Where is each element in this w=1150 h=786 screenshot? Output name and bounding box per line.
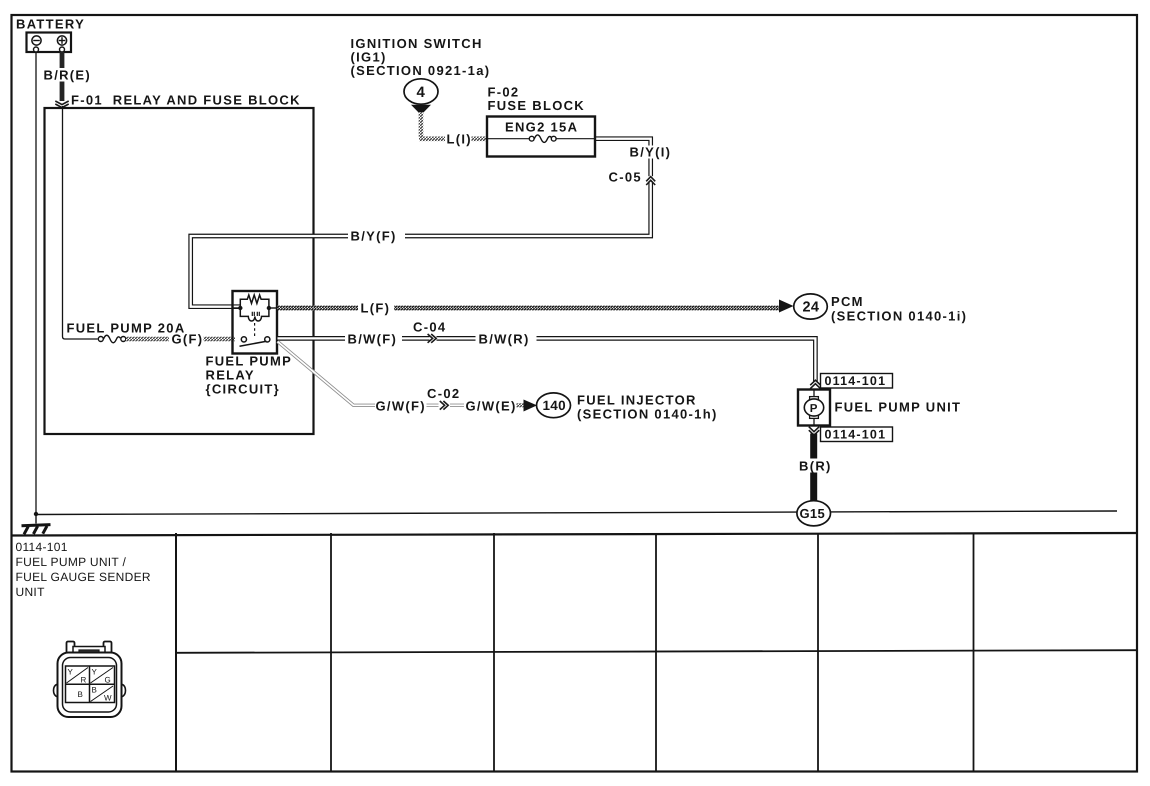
- label B/W(R): [476, 332, 537, 346]
- svg-text:FUEL PUMP: FUEL PUMP: [206, 354, 293, 369]
- wire B(R) thick ground wire: [810, 434, 817, 503]
- wire G/W(F) thin double diagonal from relay: [278, 342, 376, 406]
- svg-text:G: G: [105, 676, 112, 685]
- bottom table column divider 4: [655, 533, 657, 771]
- fuse ENG2 15A symbol: [487, 135, 595, 143]
- wire L(F) hatched to PCM: [278, 306, 359, 311]
- ground symbol: [22, 514, 51, 534]
- wire L(I) hatched: [419, 112, 424, 137]
- battery positive post: [60, 47, 65, 52]
- svg-text:Y: Y: [68, 668, 74, 677]
- svg-text:FUEL PUMP UNIT /: FUEL PUMP UNIT /: [16, 555, 127, 569]
- fuel pump unit box: [798, 390, 830, 426]
- svg-text:(SECTION 0140-1h): (SECTION 0140-1h): [577, 407, 718, 422]
- svg-text:RELAY: RELAY: [206, 368, 255, 383]
- battery body: [27, 33, 72, 53]
- svg-text:140: 140: [543, 398, 566, 413]
- svg-text:FUSE BLOCK: FUSE BLOCK: [488, 98, 586, 113]
- svg-text:24: 24: [803, 300, 820, 316]
- arrow from ignition switch: [411, 105, 431, 115]
- relay dashed actuator line: [254, 323, 256, 336]
- svg-text:W: W: [104, 694, 112, 703]
- bottom table column divider 2: [330, 533, 332, 771]
- svg-text:PCM: PCM: [831, 294, 864, 309]
- connector body inner: [63, 658, 117, 713]
- svg-text:B/Y(I): B/Y(I): [630, 145, 672, 160]
- ground point G15: [797, 501, 831, 526]
- svg-text:(SECTION 0140-1i): (SECTION 0140-1i): [831, 309, 967, 324]
- pump motor internals: [813, 390, 815, 399]
- svg-text:0114-101: 0114-101: [16, 540, 68, 554]
- connector C-02 chevrons: [440, 401, 448, 410]
- battery negative terminal: [32, 36, 41, 45]
- bottom table middle horizontal divider: [176, 650, 1137, 653]
- svg-text:Y: Y: [92, 668, 98, 677]
- connector chevrons at F-01 entry: [55, 101, 68, 108]
- relay coil bottom branch: [240, 308, 269, 321]
- wire G/W segment to C-02: [427, 404, 439, 407]
- svg-text:R: R: [81, 676, 87, 685]
- connector 0114-101 drawing: [54, 642, 126, 718]
- wire G/W(E) hatched stub to arrow: [517, 403, 526, 407]
- svg-text:C-02: C-02: [427, 386, 460, 401]
- label B/W(F): [345, 332, 402, 346]
- wire inside F-01 from B/R entry down to fuse: [63, 106, 98, 339]
- svg-text:B: B: [92, 686, 98, 695]
- svg-text:G15: G15: [800, 506, 825, 521]
- bottom table column divider 1: [175, 533, 177, 771]
- svg-text:L(I): L(I): [447, 132, 472, 147]
- connector circle 24: [794, 294, 828, 319]
- label B(R): [797, 459, 836, 473]
- PCM arrow: [779, 300, 794, 313]
- battery positive terminal: [57, 36, 66, 45]
- battery negative post: [34, 47, 39, 52]
- svg-text:4: 4: [417, 84, 426, 101]
- bottom table top edge: [11, 533, 1137, 536]
- connector body outer: [58, 653, 122, 718]
- label B/Y(F): [348, 230, 405, 244]
- junction dot at ground rail: [34, 512, 38, 516]
- label B/Y(I): [628, 146, 675, 159]
- relay coil hairpin turns: [252, 312, 259, 316]
- bottom table column divider 5: [817, 533, 819, 771]
- svg-text:B/R(E): B/R(E): [44, 68, 92, 83]
- wire G(F) hatched segment 1: [126, 337, 169, 341]
- svg-text:B/W(F): B/W(F): [348, 332, 398, 347]
- fuel pump relay box: [233, 291, 278, 354]
- 0114-101 tag upper: [821, 374, 893, 389]
- svg-text:L(F): L(F): [361, 301, 391, 316]
- wire B/R(E) thick battery feed: [60, 52, 65, 101]
- svg-text:B/W(R): B/W(R): [479, 332, 530, 347]
- F-02 fuse block outline: [487, 117, 595, 157]
- svg-text:FUEL INJECTOR: FUEL INJECTOR: [577, 393, 697, 408]
- svg-text:FUEL GAUGE SENDER: FUEL GAUGE SENDER: [16, 570, 151, 584]
- svg-text:C-04: C-04: [413, 320, 446, 335]
- svg-text:B/Y(F): B/Y(F): [351, 229, 397, 244]
- wire B/Y route: fuse block to relay coil (double line): [191, 139, 651, 307]
- svg-text:0114-101: 0114-101: [825, 374, 887, 388]
- bottom table column divider 6: [973, 533, 975, 771]
- relay switch blade: [240, 341, 267, 346]
- connector top tabs: [67, 642, 75, 654]
- connector circle 140: [537, 393, 571, 418]
- relay feed stubs: [233, 307, 241, 309]
- relay switch contacts: [241, 337, 246, 342]
- wire G(F) hatched segment 2: [204, 337, 236, 341]
- connector C-04 chevrons: [430, 333, 437, 345]
- wire L(I) hatched segment 2: [472, 137, 489, 142]
- svg-text:UNIT: UNIT: [16, 585, 46, 599]
- svg-text:FUEL PUMP UNIT: FUEL PUMP UNIT: [835, 400, 962, 415]
- relay resistor top branch: [240, 295, 269, 308]
- svg-text:FUEL PUMP 20A: FUEL PUMP 20A: [67, 321, 186, 336]
- svg-text:ENG2 15A: ENG2 15A: [505, 120, 578, 135]
- svg-text:F-01 RELAY AND FUSE BLOCK: F-01 RELAY AND FUSE BLOCK: [71, 93, 301, 108]
- F-01 relay and fuse block outline: [45, 108, 314, 434]
- svg-text:G(F): G(F): [172, 332, 204, 347]
- connector circle 4: [404, 79, 438, 104]
- svg-text:(SECTION 0921-1a): (SECTION 0921-1a): [351, 63, 491, 78]
- relay coil feed junction dots: [238, 306, 242, 310]
- connector side lock notches: [54, 684, 58, 697]
- connector C-05 chevrons: [644, 176, 658, 181]
- svg-text:B(R): B(R): [799, 459, 832, 474]
- svg-text:G/W(E): G/W(E): [466, 399, 517, 414]
- connector chevrons above fuel pump unit: [810, 380, 820, 389]
- wire B/W route: relay to fuel pump unit (double line): [278, 338, 816, 382]
- svg-text:B: B: [78, 690, 84, 699]
- fuel injector arrow: [524, 400, 538, 412]
- svg-text:P: P: [810, 403, 818, 415]
- bottom table column divider 3: [493, 533, 495, 771]
- svg-text:0114-101: 0114-101: [825, 428, 887, 442]
- fuse FUEL PUMP 20A symbol: [98, 335, 126, 343]
- svg-text:G/W(F): G/W(F): [376, 399, 426, 414]
- connector chevrons below fuel pump unit: [809, 427, 819, 436]
- battery negative wire: [35, 51, 37, 515]
- pin diagonals: [67, 668, 89, 684]
- wire G/W segment after C-02: [450, 404, 464, 407]
- svg-text:BATTERY: BATTERY: [16, 17, 85, 32]
- svg-text:{CIRCUIT}: {CIRCUIT}: [206, 382, 281, 397]
- ground rail wire: [36, 511, 1117, 515]
- pin grid: [66, 666, 115, 703]
- svg-text:C-05: C-05: [609, 170, 642, 185]
- 0114-101 tag lower: [821, 427, 893, 442]
- label B/R(E): [42, 68, 91, 82]
